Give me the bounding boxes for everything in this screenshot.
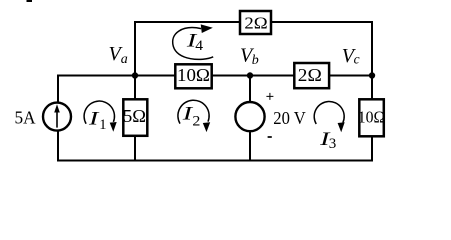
label I3 <box>319 129 337 152</box>
node Vc (junction dot) <box>369 72 375 78</box>
svg-text:b: b <box>252 53 259 68</box>
resistor 10ohm (vertical, right rail) <box>358 99 386 136</box>
wire: middle rail 10ohm box to node Vb <box>213 75 250 77</box>
svg-text:5A: 5A <box>15 107 36 127</box>
plus sign of 20V source <box>266 93 273 100</box>
svg-text:a: a <box>121 52 128 67</box>
node label Vc <box>342 45 360 67</box>
wire: 20V source leads <box>249 76 251 161</box>
svg-text:2: 2 <box>192 113 200 129</box>
svg-text:2Ω: 2Ω <box>298 65 322 85</box>
mesh current I4 (clockwise arrow, top loop) <box>173 24 214 59</box>
resistor 10ohm (between Va and Vb) <box>175 64 211 88</box>
svg-text:4: 4 <box>195 38 204 54</box>
svg-text:20 V: 20 V <box>273 108 306 128</box>
wire: bottom rail <box>58 160 372 162</box>
wire: left rail above 5A source <box>57 76 59 103</box>
minus sign of 20V source <box>268 136 272 138</box>
label I1 <box>88 109 107 134</box>
wire: right rail top through Vc to 10ohm <box>371 22 373 99</box>
wire: right rail below 10ohm <box>371 137 373 161</box>
svg-text:1: 1 <box>99 117 106 133</box>
svg-text:c: c <box>354 52 360 67</box>
label I2 <box>181 104 200 130</box>
mesh current I1 (clockwise arrow) <box>84 101 117 132</box>
wire: top-right segment to right rail <box>273 21 373 23</box>
resistor 5ohm (vertical, below Va) <box>123 99 147 136</box>
current source 5A (circle with up arrow) <box>43 103 71 131</box>
mesh current I2 (clockwise arrow) <box>178 100 210 132</box>
resistor 2ohm (between Vb and Vc) <box>294 63 329 88</box>
label I4 <box>185 30 203 54</box>
wire: middle rail left of 10ohm box <box>58 75 174 77</box>
node label Va <box>109 43 128 67</box>
stray ink fragment at top edge <box>27 0 33 2</box>
wire: left rail below 5A source <box>57 131 59 161</box>
wire: Va riser and top-left segment <box>135 22 239 76</box>
svg-text:5Ω: 5Ω <box>123 106 146 126</box>
svg-text:2Ω: 2Ω <box>244 14 267 33</box>
svg-text:10Ω: 10Ω <box>358 107 386 126</box>
node label Vb <box>240 44 259 68</box>
wire: middle rail 2ohm box to node Vc <box>331 75 373 77</box>
resistor 2ohm (top branch) <box>240 11 271 34</box>
wire: middle rail node Vb to 2ohm box <box>250 75 294 77</box>
node Vb (junction dot) <box>247 72 253 78</box>
voltage source 20V (circle) <box>235 102 264 131</box>
svg-text:3: 3 <box>329 136 337 152</box>
node Va (junction dot) <box>132 72 138 78</box>
mesh current I3 (clockwise arrow) <box>314 102 345 133</box>
svg-text:10Ω: 10Ω <box>177 65 210 85</box>
wire: 5 ohm resistor leads <box>134 76 136 161</box>
